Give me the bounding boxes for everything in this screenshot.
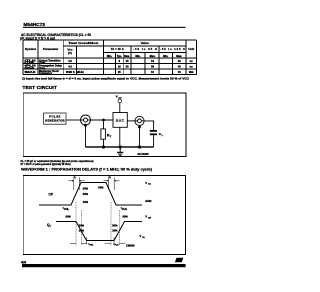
svg-text:50%: 50% [112, 223, 118, 227]
svg-text:PLH: PLH [115, 245, 119, 247]
ground symbol [117, 147, 123, 156]
svg-text:GENERATOR: GENERATOR [45, 119, 65, 123]
svg-text:Max.: Max. [176, 54, 182, 58]
svg-text:90%: 90% [123, 214, 129, 218]
tPHL bottom arrows [70, 237, 87, 244]
svg-text:GND: GND [145, 199, 151, 203]
svg-text:Parameter: Parameter [43, 47, 59, 51]
tPLH dashed lines [111, 202, 119, 246]
svg-text:CP: CP [49, 192, 54, 196]
input rise percent labels [83, 186, 104, 204]
tr marker [69, 175, 85, 190]
svg-text:4.5: 4.5 [68, 70, 72, 74]
rail junction probe [138, 145, 141, 148]
table data rows [25, 58, 195, 75]
pulse generator box [44, 113, 66, 124]
svg-text:10%: 10% [83, 200, 89, 204]
svg-text:Min.: Min. [135, 54, 140, 58]
svg-text:V: V [145, 215, 147, 219]
capacitor CL [150, 130, 164, 137]
svg-text:Value: Value [141, 41, 149, 45]
output waveform trace [56, 222, 142, 241]
svg-text:PULSE: PULSE [49, 115, 60, 119]
coax connector symbol [81, 115, 91, 125]
wire coax shield down [84, 124, 87, 127]
svg-text:MHz: MHz [189, 72, 195, 74]
probe symbol [135, 116, 144, 125]
circuit frame [23, 93, 186, 157]
table grid [23, 40, 197, 74]
svg-text:1) Input rise and fall times t: 1) Input rise and fall times tr = tf = 6… [22, 76, 189, 80]
svg-text:90%: 90% [83, 186, 89, 190]
svg-text:V: V [140, 234, 142, 238]
svg-text:4/6: 4/6 [21, 260, 26, 264]
wire PG to coax [66, 119, 81, 121]
svg-text:Test Condition: Test Condition [68, 41, 98, 45]
svg-text:V: V [145, 181, 147, 185]
svg-text:fMAX: fMAX [25, 70, 36, 74]
resistor RT [101, 129, 112, 139]
svg-text:r: r [75, 177, 76, 179]
svg-text:4.5: 4.5 [68, 64, 72, 68]
DUT box U1 [113, 113, 127, 128]
ST logo [175, 258, 184, 263]
svg-text:Min.: Min. [163, 54, 168, 58]
tPHL dashed lines [76, 202, 81, 246]
svg-text:Unit: Unit [188, 47, 194, 51]
tf marker [103, 175, 119, 190]
ground rail [86, 146, 154, 147]
output percent labels [66, 214, 129, 232]
node input junction [102, 119, 105, 122]
wire probe to rail [139, 126, 141, 148]
svg-text:tPHL: tPHL [25, 66, 37, 70]
svg-text:10%: 10% [79, 229, 85, 233]
wire DUT ground pin [119, 127, 121, 147]
tPLH bottom arrows [105, 237, 125, 244]
svg-text:Frequency: Frequency [39, 71, 53, 75]
rail junction RT [102, 145, 105, 148]
svg-text:-40 to 85 C: -40 to 85 C [133, 47, 157, 51]
svg-text:M54HC73: M54HC73 [23, 22, 45, 27]
svg-text:Min.: Min. [107, 54, 112, 58]
svg-text:Max.: Max. [150, 54, 156, 58]
svg-text:-55 to 125 C: -55 to 125 C [160, 47, 185, 51]
svg-text:90%: 90% [66, 214, 72, 218]
VCC terminal [118, 99, 122, 103]
table header texts [25, 41, 194, 58]
node below probe [138, 126, 141, 129]
svg-text:WAVEFORM 1 : PROPAGATION DELAY: WAVEFORM 1 : PROPAGATION DELAYS (f = 1 M… [21, 167, 153, 171]
svg-text:50%: 50% [79, 223, 85, 227]
svg-text:10%: 10% [112, 229, 118, 233]
wire DUT output [127, 120, 135, 122]
svg-text:Symbol: Symbol [25, 47, 36, 51]
svg-text:Max.: Max. [124, 54, 130, 58]
svg-text:TEST CIRCUIT: TEST CIRCUIT [22, 85, 57, 91]
input waveform trace [39, 183, 142, 206]
wire coax to DUT input [91, 119, 114, 121]
svg-text:50%: 50% [98, 186, 104, 190]
svg-text:CM026: CM026 [126, 243, 135, 247]
svg-text:RT = ZOUT of pulse generator (: RT = ZOUT of pulse generator (typically … [21, 162, 71, 166]
wire node to RT [103, 120, 105, 129]
svg-text:Typ.: Typ. [117, 54, 122, 58]
svg-text:V: V [116, 95, 118, 99]
svg-text:SC10280: SC10280 [137, 152, 148, 156]
wire VCC to DUT [119, 103, 121, 113]
wire RT to ground rail [103, 139, 105, 147]
svg-text:ST: ST [178, 259, 182, 263]
svg-text:(V): (V) [68, 51, 72, 55]
footer rule [22, 264, 186, 267]
svg-text:4.5: 4.5 [68, 59, 72, 63]
svg-text:50%: 50% [83, 192, 89, 196]
wire output to CL [144, 121, 154, 130]
header rule [23, 27, 186, 28]
svg-text:PHL: PHL [64, 208, 69, 211]
svg-text:D.U.T.: D.U.T. [116, 118, 125, 122]
wire CL to rail [153, 135, 155, 147]
waveform frame [23, 176, 185, 255]
rail junction DUT [119, 145, 122, 148]
svg-text:PLH: PLH [122, 208, 127, 211]
svg-text:TA = 25 C: TA = 25 C [111, 47, 124, 51]
